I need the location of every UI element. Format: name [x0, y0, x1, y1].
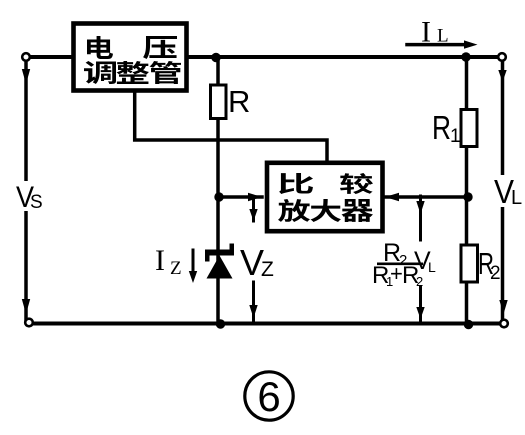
svg-text:Z: Z — [261, 258, 274, 281]
svg-text:S: S — [30, 192, 43, 213]
svg-text:I: I — [421, 16, 431, 49]
svg-text:L: L — [437, 26, 449, 47]
svg-text:1: 1 — [450, 126, 461, 147]
svg-text:R: R — [228, 84, 250, 119]
svg-text:L: L — [428, 259, 436, 275]
svg-text:2: 2 — [416, 274, 423, 289]
svg-text:+: + — [390, 261, 403, 286]
svg-text:L: L — [511, 187, 522, 209]
svg-text:R: R — [432, 109, 451, 146]
svg-text:Z: Z — [170, 258, 182, 279]
svg-text:I: I — [155, 244, 165, 277]
svg-text:6: 6 — [257, 373, 280, 420]
svg-text:2: 2 — [490, 263, 501, 284]
